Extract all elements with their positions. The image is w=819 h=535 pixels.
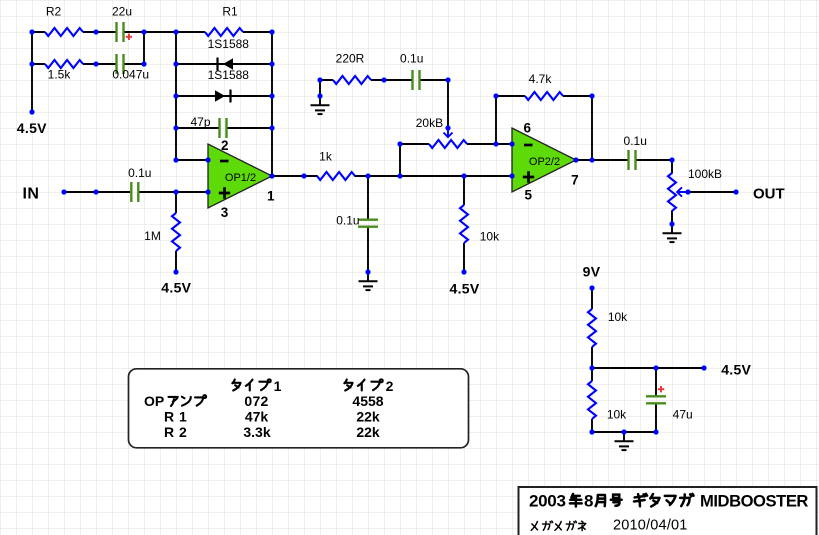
title box border — [519, 487, 817, 535]
svg-text:5: 5 — [524, 188, 532, 203]
svg-text:OP2/2: OP2/2 — [529, 156, 560, 168]
polarity + of 22u — [126, 34, 132, 40]
table header タイプ1 — [232, 378, 281, 394]
polarity + of 47u — [658, 386, 664, 392]
junction node (448,128) — [445, 125, 450, 130]
potentiometer 100kB body — [668, 167, 722, 211]
junction node (704,368) — [701, 365, 706, 370]
ground (220R) — [311, 96, 330, 114]
junction node (448,80) — [445, 77, 450, 82]
svg-text:4558: 4558 — [352, 393, 383, 409]
wire 47p row y=128 — [176, 127, 272, 129]
junction node (176,160) — [173, 157, 178, 162]
junction node (96,64) — [93, 61, 98, 66]
wire pot left leg x=400 — [399, 144, 401, 176]
title author メガメガネ and date — [531, 517, 687, 533]
svg-text:1: 1 — [179, 409, 187, 425]
power label 4.5V (right) — [721, 362, 751, 378]
table row R2 — [164, 424, 187, 440]
svg-text:R1: R1 — [222, 5, 238, 19]
svg-text:0.1u: 0.1u — [400, 52, 423, 66]
wire 47u branch x=656 — [655, 368, 657, 432]
wire 220R/0.1u row y=80 — [320, 79, 448, 81]
resistor 10k (upper divider) — [588, 309, 628, 347]
op-amp U2 OP2/2 — [512, 128, 576, 192]
junction node (400,144) — [397, 141, 402, 146]
svg-text:2010/04/01: 2010/04/01 — [613, 517, 688, 533]
svg-text:4.5V: 4.5V — [721, 362, 751, 378]
junction node (144,64) — [141, 61, 146, 66]
wire divider bottom y=432 — [592, 431, 656, 433]
svg-text:2: 2 — [386, 378, 394, 394]
power label 9V — [583, 264, 601, 280]
wire to OP1 inverting input — [176, 159, 208, 161]
junction node (656,368) — [653, 365, 658, 370]
wire cap join column x=144 — [143, 32, 145, 64]
junction node (592,96) — [589, 93, 594, 98]
pin 2 label — [221, 138, 229, 153]
svg-text:220R: 220R — [336, 52, 365, 66]
svg-text:2: 2 — [179, 424, 187, 440]
table value 47k — [245, 409, 269, 425]
svg-text:OP: OP — [144, 393, 164, 409]
minus sign U1 — [220, 160, 229, 163]
svg-text:072: 072 — [244, 393, 268, 409]
svg-text:IN: IN — [23, 186, 40, 203]
junction node (176,272) — [173, 269, 178, 274]
junction node (592,368) — [589, 365, 594, 370]
capacitor 0.047u — [112, 54, 149, 82]
table value 072 — [244, 393, 268, 409]
junction node (32,64) — [29, 61, 34, 66]
junction node (400,176) — [397, 173, 402, 178]
capacitor 0.1u (output) — [624, 134, 647, 170]
svg-text:4.7k: 4.7k — [529, 72, 553, 86]
svg-text:1.5k: 1.5k — [48, 68, 72, 82]
junction node (304,176) — [301, 173, 306, 178]
table value 4558 — [352, 393, 383, 409]
wire 1M branch x=176 — [175, 192, 177, 272]
junction node (176,128) — [173, 125, 178, 130]
junction node (320,80) — [317, 77, 322, 82]
junction node (368,272) — [365, 269, 370, 274]
potentiometer 20kB wiper arrow — [444, 129, 453, 137]
pin 6 label — [524, 121, 532, 136]
wire 9V divider upper x=592 — [591, 288, 593, 368]
svg-text:10k: 10k — [480, 230, 500, 244]
svg-text:4.5V: 4.5V — [17, 120, 47, 136]
junction node (384,80) — [381, 77, 386, 82]
junction node (272,96) — [269, 93, 274, 98]
svg-text:47k: 47k — [245, 409, 269, 425]
junction node (464,176) — [461, 173, 466, 178]
junction node (64,192) — [61, 189, 66, 194]
capacitor 47u electrolytic — [646, 396, 693, 421]
svg-text:3.3k: 3.3k — [243, 424, 270, 440]
title text 2003年8月号 ギタマガ MIDBOOSTER — [529, 492, 808, 511]
junction node (144,32) — [141, 29, 146, 34]
wire pot wiper column x=448 — [447, 80, 449, 128]
svg-text:MIDBOOSTER: MIDBOOSTER — [700, 492, 808, 511]
plus sign U1 — [219, 187, 230, 198]
junction node (496,144) — [493, 141, 498, 146]
table header タイプ2 — [344, 378, 393, 394]
svg-text:R: R — [164, 424, 174, 440]
wire feedback left column x=176 — [175, 32, 177, 160]
wire feedback right column x=272 — [271, 32, 273, 176]
svg-text:20kB: 20kB — [416, 116, 443, 130]
junction node (176,192) — [173, 189, 178, 194]
svg-text:1S1588: 1S1588 — [208, 68, 250, 82]
port OUT — [753, 186, 785, 203]
svg-text:22k: 22k — [356, 409, 380, 425]
wire diode row y=64 — [176, 63, 272, 65]
svg-text:R: R — [164, 409, 174, 425]
resistor R2 1.5k (top) — [45, 5, 83, 37]
wire 220R ground leg x=320 — [319, 80, 321, 96]
svg-text:8: 8 — [584, 492, 593, 511]
power label 4.5V (under 1M) — [161, 279, 191, 295]
wire IN row y=192 — [64, 191, 208, 193]
potentiometer 100kB wiper arrow — [677, 187, 688, 196]
capacitor 47p — [190, 115, 226, 138]
junction node (208,160) — [205, 157, 210, 162]
junction node (272,64) — [269, 61, 274, 66]
pin 3 label — [221, 205, 229, 220]
ground (under 0.1u shunt) — [359, 272, 378, 290]
svg-text:R2: R2 — [46, 5, 62, 19]
table row OPアンプ — [144, 393, 206, 409]
wire 4.7k left leg x=496 — [495, 96, 497, 144]
resistor R1 47k/22k — [205, 5, 243, 37]
resistor 1.5k — [45, 60, 83, 82]
svg-text:4.5V: 4.5V — [161, 279, 191, 295]
svg-text:3: 3 — [221, 205, 229, 220]
resistor 1M — [144, 213, 180, 251]
table value 22k (type2 R2) — [356, 424, 380, 440]
svg-text:10k: 10k — [607, 408, 627, 422]
table value 3.3k — [243, 424, 270, 440]
wire output pot column x=672 — [671, 160, 673, 224]
wire 9V divider lower x=592 — [591, 368, 593, 432]
junction node (688,192) — [685, 189, 690, 194]
junction node (464,272) — [461, 269, 466, 274]
junction node (512,144) — [509, 141, 514, 146]
svg-text:6: 6 — [524, 121, 532, 136]
wire 4.5V rail y=368 — [592, 367, 704, 369]
wire left 4.5V column x=32 — [31, 32, 33, 112]
junction node (496,96) — [493, 93, 498, 98]
junction node (592,432) — [589, 429, 594, 434]
resistor 1k — [317, 150, 355, 180]
svg-text:4.5V: 4.5V — [450, 281, 480, 297]
junction node (272,128) — [269, 125, 274, 130]
table row R1 — [164, 409, 187, 425]
junction node (272,176) — [269, 173, 274, 178]
ground (output pot) — [663, 224, 682, 242]
junction node (272,32) — [269, 29, 274, 34]
wire OUT stub y=192 — [688, 191, 736, 193]
svg-text:OP1/2: OP1/2 — [225, 172, 256, 184]
svg-text:2003: 2003 — [529, 492, 566, 511]
svg-text:0.1u: 0.1u — [624, 134, 647, 148]
junction node (176,96) — [173, 93, 178, 98]
capacitor 0.1u (shunt) — [336, 214, 378, 228]
wire top row y=32 (R2/22u/R1 net) — [32, 31, 272, 33]
diode D2 1S1588 (cathode right) — [208, 68, 250, 103]
port IN — [23, 186, 40, 203]
potentiometer 20kB body — [416, 116, 467, 148]
power label 4.5V (under 10k) — [450, 281, 480, 297]
pin 5 label — [524, 188, 532, 203]
wire OP1 output row y=176 — [272, 175, 512, 177]
junction node (672,160) — [669, 157, 674, 162]
op-amp U1 OP1/2 — [208, 144, 272, 208]
junction node (176,32) — [173, 29, 178, 34]
junction node (576,160) — [573, 157, 578, 162]
junction node (368,176) — [365, 173, 370, 178]
capacitor 0.1u (filter) — [400, 52, 423, 91]
svg-text:22k: 22k — [356, 424, 380, 440]
junction node (736,192) — [733, 189, 738, 194]
junction node (32,112) — [29, 109, 34, 114]
resistor 10k (lower divider) — [588, 381, 627, 422]
capacitor 0.1u (input) — [128, 166, 151, 202]
resistor 220R — [333, 52, 371, 85]
junction node (176,64) — [173, 61, 178, 66]
svg-text:22u: 22u — [112, 5, 132, 19]
wire 4.7k feedback row y=96 — [496, 95, 592, 97]
wire 10k bias branch x=464 — [463, 176, 465, 272]
ground (divider) — [615, 432, 634, 450]
wire 0.1u shunt branch x=368 — [367, 176, 369, 272]
power label 4.5V (left) — [17, 120, 47, 136]
junction node (672,224) — [669, 221, 674, 226]
wire 4.7k right leg x=592 — [591, 96, 593, 160]
svg-text:1: 1 — [274, 378, 282, 394]
wire second row y=64 (1.5k/0.047u) — [32, 63, 144, 65]
svg-text:1S1588: 1S1588 — [208, 37, 250, 51]
svg-text:0.1u: 0.1u — [128, 166, 151, 180]
table box (type comparison) — [129, 369, 469, 448]
svg-text:10k: 10k — [608, 310, 628, 324]
junction node (320,96) — [317, 93, 322, 98]
svg-text:0.047u: 0.047u — [112, 68, 149, 82]
svg-text:1M: 1M — [144, 229, 161, 243]
svg-text:1: 1 — [267, 188, 275, 203]
svg-text:1k: 1k — [319, 150, 333, 164]
minus sign U2 — [524, 144, 533, 147]
svg-text:7: 7 — [571, 172, 579, 187]
diode D1 1S1588 (cathode left) — [208, 37, 250, 71]
junction node (96,192) — [93, 189, 98, 194]
svg-text:100kB: 100kB — [688, 167, 722, 181]
svg-text:0.1u: 0.1u — [336, 214, 359, 228]
resistor 10k (bias) — [460, 205, 500, 244]
wire OP2 output row y=160 — [576, 159, 672, 161]
svg-text:9V: 9V — [583, 264, 601, 280]
wire pot row y=144 — [400, 143, 512, 145]
svg-text:47p: 47p — [190, 115, 210, 129]
svg-text:OUT: OUT — [753, 186, 785, 203]
junction node (592,288) — [589, 285, 594, 290]
junction node (512,176) — [509, 173, 514, 178]
resistor 4.7k — [525, 72, 563, 100]
pin 7 label — [571, 172, 579, 187]
junction node (32,32) — [29, 29, 34, 34]
junction node (96,32) — [93, 29, 98, 34]
junction node (656,432) — [653, 429, 658, 434]
capacitor 22u electrolytic — [112, 5, 132, 43]
junction node (208,192) — [205, 189, 210, 194]
svg-text:2: 2 — [221, 138, 229, 153]
svg-text:47u: 47u — [673, 408, 693, 422]
junction node (592,160) — [589, 157, 594, 162]
junction node (624,432) — [621, 429, 626, 434]
wire diode row y=96 — [176, 95, 272, 97]
plus sign U2 — [523, 171, 534, 182]
table value 22k (type2 R1) — [356, 409, 380, 425]
pin 1 label — [267, 188, 275, 203]
